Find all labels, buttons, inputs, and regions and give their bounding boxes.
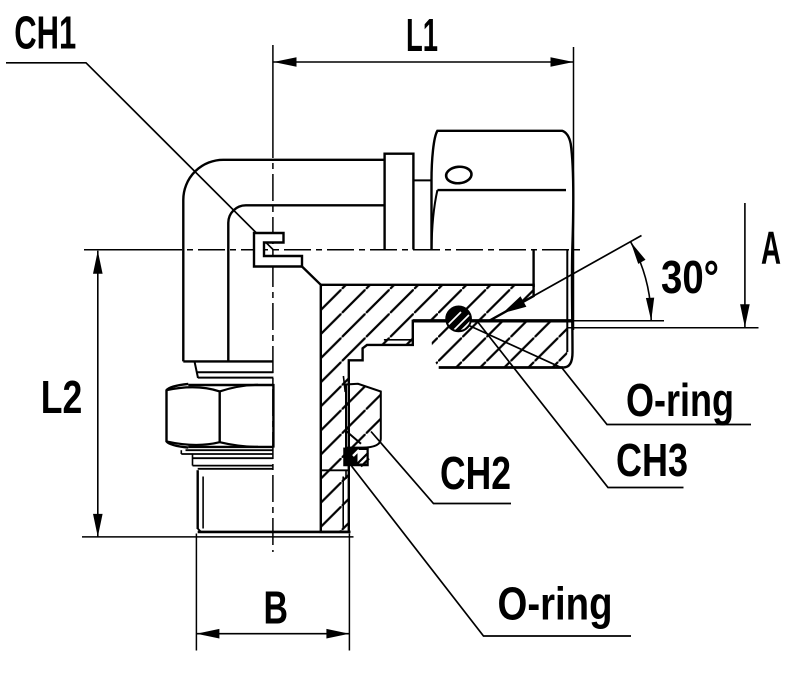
- svg-text:CH1: CH1: [14, 7, 76, 59]
- stud thread shoulder right: [321, 469, 349, 471]
- svg-text:CH2: CH2: [440, 447, 511, 499]
- hex top chamfer arcs: [167, 385, 259, 392]
- thread relief taper: [195, 361, 199, 378]
- extension line at stud bottom: [82, 536, 354, 538]
- swivel nut bore edge: [566, 250, 568, 353]
- 30 degree angular dimension arc: [631, 242, 652, 321]
- thread runout line right: [343, 376, 345, 392]
- locknut hex face line: [218, 391, 220, 442]
- elbow inner contour: [228, 205, 384, 361]
- svg-text:CH3: CH3: [616, 434, 688, 486]
- thread step line: [384, 339, 413, 341]
- swivel nut bottom face: [439, 366, 564, 369]
- swivel nut lower face chamfer: [432, 190, 438, 249]
- leader and label CH3: [477, 321, 684, 488]
- swivel nut hex face line: [437, 189, 566, 191]
- locknut hex outline: [167, 384, 189, 448]
- step line washer to nut: [413, 179, 431, 181]
- leader line CH1: [6, 63, 274, 251]
- svg-text:L1: L1: [406, 9, 438, 61]
- chamfer from clip to body corner: [302, 267, 321, 285]
- cross hole in swivel nut: [445, 166, 472, 185]
- stud thread root left: [202, 477, 204, 529]
- dimension A: [744, 203, 746, 327]
- retaining washer on tube: [385, 154, 414, 250]
- leader and label CH2: [371, 432, 511, 504]
- sectioned tube clip at elbow centre (CH1 target): [254, 233, 302, 267]
- leader and label O-ring (stud seal): [352, 466, 632, 636]
- elbow body cross-section (hatched): [321, 285, 534, 532]
- cone arrowhead: [503, 296, 527, 313]
- tube end face edge: [532, 250, 534, 288]
- dimension B: [195, 534, 197, 651]
- dimension L2: [97, 251, 99, 537]
- locknut cross-section (hatched): [346, 384, 381, 448]
- stud bottom chamfer left: [198, 529, 201, 532]
- face O-ring cross-section: [446, 306, 471, 331]
- hex bottom chamfer arcs: [167, 441, 259, 447]
- svg-text:O-ring: O-ring: [498, 578, 613, 630]
- 30 degree seat cone line: [489, 236, 641, 321]
- elbow outer contour: [183, 160, 384, 362]
- washer stack lines: [186, 449, 273, 451]
- stud thread root right: [342, 477, 344, 529]
- stud thread crest left: [196, 470, 198, 529]
- svg-text:L2: L2: [41, 371, 83, 423]
- leader and label O-ring (face seal): [469, 326, 751, 425]
- horizontal centerline of side port: [84, 249, 182, 251]
- svg-text:O-ring: O-ring: [626, 374, 734, 426]
- svg-text:30°: 30°: [661, 251, 719, 303]
- dimension L1: [274, 61, 574, 63]
- nut counterbore face line: [567, 327, 759, 329]
- elbow body bottom edge: [183, 360, 273, 362]
- locknut cut edge at centerline: [272, 384, 274, 448]
- swivel nut outline: [432, 131, 574, 368]
- swivel nut lower cross-section (hatched): [432, 321, 568, 368]
- svg-text:B: B: [264, 582, 289, 634]
- svg-text:A: A: [761, 221, 781, 273]
- O-ring seat line: [413, 319, 574, 322]
- O-ring seal cross-section at stud shoulder: [344, 448, 368, 465]
- stud bottom edge: [198, 531, 351, 534]
- thread runout chamfer into O-ring groove: [346, 431, 362, 444]
- vertical centerline of bottom port: [272, 45, 274, 158]
- upper washer edge lines: [197, 371, 274, 373]
